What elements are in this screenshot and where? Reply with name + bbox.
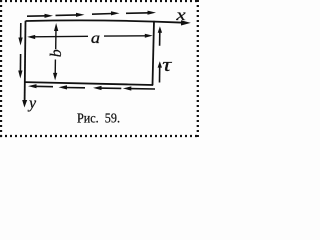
svg-text:a: a (91, 30, 100, 47)
svg-text:y: y (27, 95, 37, 112)
dimension line a (horizontal, with outward arrowheads, broken for label) (27, 34, 153, 39)
bottom arrow B2 (59, 85, 86, 89)
svg-text:x: x (175, 7, 186, 24)
svg-text:Рис. 59.: Рис. 59. (77, 112, 120, 127)
svg-text:b: b (48, 49, 65, 57)
y-axis arrowhead (22, 100, 27, 108)
right up arrow U1 (158, 26, 162, 46)
dotted frame border (0, 0, 200, 139)
rectangle right edge (153, 21, 155, 85)
left down arrow D2 (18, 54, 22, 79)
dimension line b (vertical, with outward arrowheads, broken for label) (53, 23, 58, 80)
left down arrow D1 (18, 23, 22, 46)
x-axis arrowhead (181, 20, 191, 25)
bottom arrow B3 (93, 86, 121, 90)
right up arrow U2 (tau) (158, 61, 162, 82)
x-axis / rectangle top edge (26, 20, 184, 22)
top arrow T3 (92, 11, 120, 15)
bottom arrow B4 (123, 86, 155, 90)
top arrow T2 (56, 13, 85, 17)
svg-text:τ: τ (162, 55, 173, 76)
top arrow T4 (126, 11, 156, 15)
y-axis / rectangle left edge (24, 21, 27, 101)
rectangle bottom edge (25, 82, 153, 85)
bottom arrow B1 (28, 84, 53, 88)
top arrow T1 (27, 14, 53, 18)
